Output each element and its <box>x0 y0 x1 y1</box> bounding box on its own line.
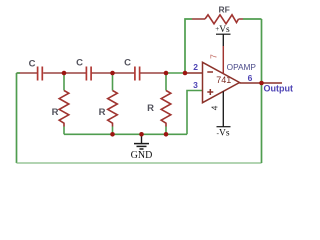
svg-text:R: R <box>147 103 154 114</box>
power -Vs <box>216 127 230 139</box>
wire bottom rail <box>17 162 262 164</box>
svg-text:C: C <box>29 59 36 70</box>
capacitor C2 <box>76 58 112 81</box>
pin 4 label (rotated) <box>210 105 220 110</box>
pin 3 label <box>193 80 198 90</box>
svg-text:C: C <box>76 58 83 69</box>
wire feedback top <box>185 19 262 73</box>
svg-text:RF: RF <box>219 5 230 15</box>
svg-text:OPAMP: OPAMP <box>227 62 257 72</box>
label Output <box>264 83 294 93</box>
node junction 2 <box>110 71 115 76</box>
resistor R2 <box>99 73 118 134</box>
wire pin 3 <box>187 91 203 135</box>
ground <box>131 134 153 161</box>
pin 7 label (rotated) <box>209 54 219 59</box>
svg-text:R: R <box>52 107 59 118</box>
svg-text:4: 4 <box>210 105 220 110</box>
pin 7 wire <box>222 46 224 74</box>
wire right vertical (output to bottom rail) <box>261 19 263 163</box>
svg-text:3: 3 <box>193 80 198 90</box>
svg-text:R: R <box>99 107 106 118</box>
op-amp U1 741 <box>203 62 257 103</box>
resistor R3 <box>147 73 171 134</box>
wire chain to C3 <box>113 72 135 74</box>
resistor RF <box>192 5 243 24</box>
svg-text:-Vs: -Vs <box>216 129 229 139</box>
svg-text:Output: Output <box>264 83 294 93</box>
capacitor C1 <box>29 59 64 81</box>
node junction 4 <box>183 71 188 76</box>
power +Vs <box>215 25 230 46</box>
resistor R1 <box>52 73 69 134</box>
capacitor C3 <box>124 58 166 81</box>
node output <box>259 81 264 86</box>
node junction 3 <box>164 71 169 76</box>
node R2 bottom <box>110 132 115 137</box>
wire left rail <box>16 73 18 163</box>
svg-text:C: C <box>124 58 131 69</box>
wire chain green segment to node 4 <box>166 72 185 74</box>
pin 6 label <box>248 73 253 83</box>
svg-text:6: 6 <box>248 73 253 83</box>
wire chain to C2 <box>64 72 86 74</box>
svg-text:GND: GND <box>131 150 153 161</box>
node R3 bottom <box>164 132 169 137</box>
wire top chain segment corner to C1 <box>17 72 38 74</box>
wire node 4 to pin 2 <box>185 72 203 74</box>
node GND junction <box>139 132 144 137</box>
svg-text:2: 2 <box>193 62 198 72</box>
wire bottom resistor rail <box>64 133 187 135</box>
node junction 1 <box>62 71 67 76</box>
svg-text:7: 7 <box>209 54 219 59</box>
pin 4 wire <box>222 91 224 126</box>
svg-text:741: 741 <box>216 75 231 85</box>
wire pin 6 output <box>240 82 283 84</box>
pin 2 label <box>193 62 198 72</box>
